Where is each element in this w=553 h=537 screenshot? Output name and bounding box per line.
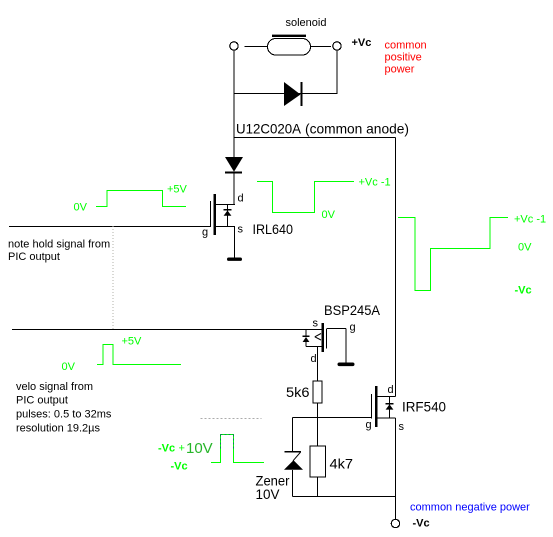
svg-text:d: d (238, 193, 244, 205)
svg-text:g: g (366, 419, 372, 431)
svg-text:-Vc: -Vc (515, 285, 532, 297)
svg-text:+Vc -1: +Vc -1 (514, 214, 546, 226)
svg-text:solenoid: solenoid (286, 17, 327, 29)
svg-text:+5V: +5V (122, 336, 143, 348)
svg-text:5k6: 5k6 (286, 384, 310, 400)
svg-text:BSP245A: BSP245A (324, 302, 381, 318)
svg-text:-Vc: -Vc (413, 518, 430, 530)
svg-text:positive: positive (385, 52, 422, 64)
svg-text:IRF540: IRF540 (402, 399, 446, 415)
svg-text:PIC output: PIC output (16, 395, 68, 407)
svg-text:pulses: 0.5 to 32ms: pulses: 0.5 to 32ms (16, 409, 112, 421)
svg-text:0V: 0V (322, 209, 336, 221)
svg-text:+Vc -1: +Vc -1 (359, 177, 391, 189)
svg-text:(common anode): (common anode) (305, 121, 409, 137)
svg-text:power: power (385, 64, 415, 76)
svg-text:+Vc: +Vc (352, 37, 372, 49)
svg-text:s: s (238, 224, 244, 236)
svg-text:+: + (179, 443, 185, 455)
svg-text:d: d (311, 353, 317, 365)
svg-text:0V: 0V (62, 361, 76, 373)
svg-text:s: s (399, 421, 405, 433)
svg-text:common: common (385, 40, 427, 52)
svg-text:velo signal from: velo signal from (16, 381, 93, 393)
svg-text:IRL640: IRL640 (253, 221, 294, 237)
svg-text:d: d (388, 384, 394, 396)
svg-text:10V: 10V (186, 440, 213, 457)
svg-text:g: g (202, 227, 208, 239)
svg-text:+5V: +5V (167, 184, 188, 196)
svg-text:10V: 10V (256, 486, 281, 502)
svg-text:g: g (350, 322, 356, 334)
svg-text:0V: 0V (518, 242, 532, 254)
svg-text:PIC output: PIC output (8, 251, 60, 263)
svg-text:-Vc: -Vc (158, 443, 175, 455)
svg-text:resolution 19.2µs: resolution 19.2µs (16, 423, 100, 435)
svg-text:common negative power: common negative power (410, 502, 530, 514)
svg-text:U12C020A: U12C020A (236, 121, 302, 137)
svg-text:4k7: 4k7 (330, 456, 354, 472)
svg-text:note hold signal from: note hold signal from (8, 239, 110, 251)
svg-text:s: s (313, 318, 319, 330)
svg-text:-Vc: -Vc (171, 461, 188, 473)
svg-text:0V: 0V (74, 202, 88, 214)
